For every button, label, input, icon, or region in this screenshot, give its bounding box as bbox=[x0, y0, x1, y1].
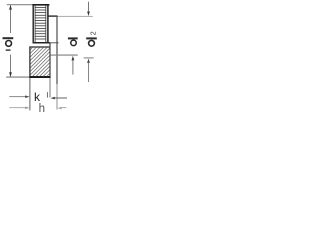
dimension d1: arrowhead down bbox=[9, 72, 12, 77]
dimension k: left-pointing arrowhead bbox=[50, 97, 54, 100]
dimension k: right lead line bbox=[54, 97, 67, 99]
label d2 (rotated d = bar + bowl, plus rotated 2) bbox=[86, 37, 97, 39]
extension line from boss top (d2 upper, y=16.2) bbox=[58, 15, 93, 17]
section bottom edge (thick, y=77) bbox=[29, 76, 50, 78]
dimension d2: upper shaft bbox=[88, 2, 90, 13]
dimension d: tail shaft bbox=[72, 60, 74, 75]
knurled head top edge bbox=[32, 4, 49, 6]
svg-text:h: h bbox=[39, 103, 45, 115]
knurled head outer right edge bbox=[47, 4, 49, 43]
label d (rotated d = bar + bowl) bbox=[68, 37, 78, 39]
dimension d1: arrowhead up bbox=[9, 5, 12, 10]
section right edge / extension bar for k (x=50) bbox=[49, 43, 51, 78]
svg-text:2: 2 bbox=[91, 31, 98, 35]
extension line top (d1 top, y=4.9) bbox=[7, 4, 33, 6]
knurled head outer left edge bbox=[32, 4, 34, 43]
boss top edge bbox=[48, 15, 57, 17]
extension line for d2 lower (y=58.1) bbox=[84, 57, 94, 59]
svg-text:k: k bbox=[34, 90, 41, 104]
dimension d2: up arrowhead under lower line bbox=[87, 59, 90, 64]
dimension d: up arrowhead under line bbox=[72, 56, 75, 61]
axis line across boss bbox=[50, 42, 59, 44]
dimension k: left lead line bbox=[9, 96, 27, 98]
dimension d1: line lower segment bbox=[10, 55, 12, 77]
dimension d2: lower tail shaft bbox=[88, 63, 90, 83]
extension line bottom (d1 bottom, y=77.2) bbox=[6, 76, 29, 78]
dimension h: left lead line bbox=[9, 107, 27, 109]
knurl band inner right line bbox=[45, 5, 47, 42]
label d1 (rotated d = bar + bowl, plus rotated 1 = dash) bbox=[3, 37, 14, 39]
dimension d1: line upper segment bbox=[10, 5, 12, 33]
background bbox=[0, 0, 107, 121]
boss right edge / extension bar for h (x=57) bbox=[56, 16, 58, 84]
section left edge (x=30) bbox=[29, 47, 31, 79]
dimension h: left-pointing arrowhead bbox=[57, 107, 61, 110]
dimension h: right-pointing arrowhead bbox=[25, 107, 29, 110]
section top edge (hole wall, y=47) bbox=[29, 46, 50, 48]
dimension k: right-pointing arrowhead bbox=[25, 95, 29, 98]
extension bar x47.4 (k) bbox=[46, 92, 48, 98]
hatch fill of section bbox=[27, 46, 81, 77]
dimension d2: down arrowhead bbox=[87, 12, 90, 17]
extension line for d (y=55.2) bbox=[50, 54, 78, 56]
knurl rungs (straight knurl lines) bbox=[35, 7, 46, 39]
knurled head bottom edge bbox=[33, 42, 50, 44]
dimension h: right lead line bbox=[60, 107, 66, 109]
extension bar x30 below nut bbox=[29, 78, 31, 110]
knurl band inner left line bbox=[34, 5, 36, 42]
